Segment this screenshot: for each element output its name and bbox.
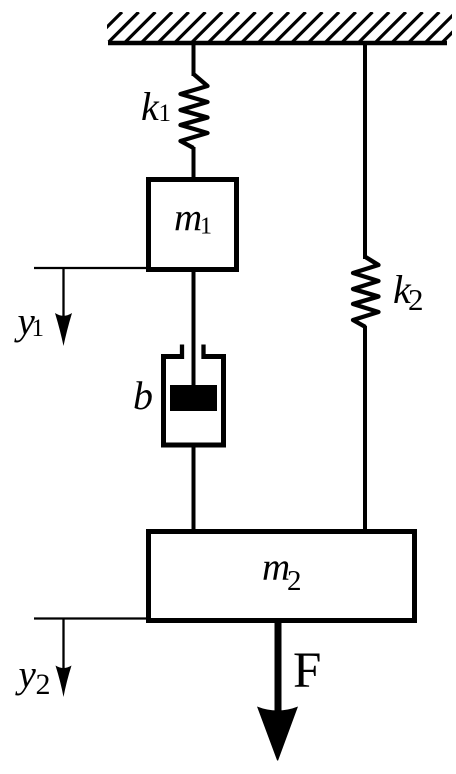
svg-text:y: y [15,653,37,696]
svg-text:m: m [174,197,202,240]
svg-text:2: 2 [408,282,424,317]
svg-text:F: F [293,643,321,699]
svg-text:1: 1 [200,214,212,240]
svg-text:1: 1 [32,315,45,342]
svg-text:b: b [133,373,153,418]
svg-text:k: k [141,84,160,129]
svg-text:m: m [262,546,290,589]
svg-text:2: 2 [36,668,51,701]
svg-text:1: 1 [159,100,172,127]
svg-text:2: 2 [287,565,302,597]
